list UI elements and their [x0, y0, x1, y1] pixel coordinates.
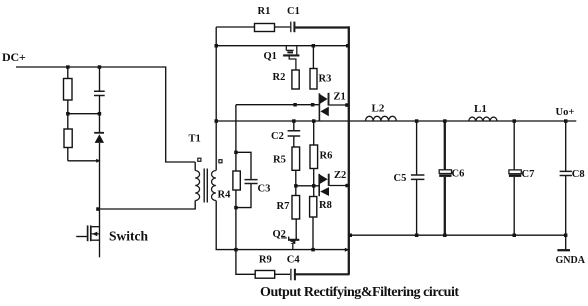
wire R4/C3 vertical	[235, 152, 237, 249]
resistor (input snubber, unlabeled bottom)	[64, 129, 72, 148]
capacitor C5	[411, 175, 425, 179]
junction dot mid rail R8	[311, 248, 315, 252]
junction dot line B C8/Uo+	[564, 119, 568, 123]
svg-text:R1: R1	[258, 6, 271, 17]
wire switch gate lead	[76, 236, 87, 238]
junction dot bottom rail at bus	[349, 234, 353, 238]
capacitor C6 (electrolytic)	[439, 170, 451, 177]
junction dot left tie upper L	[66, 112, 70, 116]
svg-text:R9: R9	[259, 255, 272, 266]
junction dot line B R6	[312, 119, 316, 123]
svg-text:R7: R7	[277, 201, 290, 212]
wire C3 loop	[236, 152, 251, 207]
wire left capacitor/diode column	[99, 67, 101, 209]
junction dot R4 top	[234, 151, 238, 155]
wire thick C4 return	[296, 273, 350, 275]
svg-text:C8: C8	[572, 169, 585, 180]
junction dot bottom rail C7	[513, 234, 517, 238]
svg-text:DC+: DC+	[2, 50, 26, 64]
resistor R9	[255, 271, 275, 279]
junction dot bottom rail GND corner	[564, 234, 568, 238]
junction dot Z2 R6R8	[312, 184, 316, 188]
svg-text:R5: R5	[273, 155, 286, 166]
svg-text:C6: C6	[452, 169, 465, 180]
wire cross ties left section	[68, 114, 100, 161]
svg-text:Z2: Z2	[334, 170, 346, 181]
ground GNDA symbol	[557, 249, 570, 251]
transformer T1	[195, 158, 222, 202]
capacitor (left input, unlabeled)	[94, 91, 105, 95]
capacitor C2	[288, 131, 301, 136]
capacitor C8	[560, 171, 572, 175]
wire output line B (secondary top to Uo+)	[216, 120, 576, 122]
junction dot line B C7	[513, 119, 517, 123]
wire thick C1 to bus	[295, 26, 349, 28]
svg-text:L1: L1	[474, 103, 487, 115]
wire secondary riser (node between T1 secondary top, rails)	[215, 27, 217, 171]
junction dot line B C6	[443, 119, 447, 123]
resistor R5	[292, 147, 300, 170]
inductor L2	[366, 116, 397, 121]
junction dot switch drain / primary	[96, 207, 100, 211]
svg-text:GNDA: GNDA	[556, 255, 586, 266]
wire R9/C4 branch	[236, 250, 290, 275]
wire switch drain column	[99, 209, 101, 257]
transistor Q1	[283, 46, 299, 70]
svg-text:Q1: Q1	[264, 51, 277, 62]
wire C8 column	[565, 121, 567, 250]
junction dot rail2 left	[215, 44, 219, 48]
wire R6-R8 link	[313, 169, 315, 197]
transistor Switch (power MOSFET)	[88, 225, 100, 241]
resistor R4	[233, 171, 240, 190]
zener Z2 (dual clamp)	[319, 174, 329, 197]
svg-text:C1: C1	[287, 6, 300, 17]
svg-text:R8: R8	[319, 200, 332, 211]
svg-text:Output Rectifying&Filtering ci: Output Rectifying&Filtering circuit	[260, 285, 459, 300]
wire left snubber column (resistor branch leads)	[67, 67, 69, 161]
resistor R7	[292, 196, 300, 220]
wire R5-R7 link	[295, 170, 297, 195]
junction dot line B C2	[292, 119, 296, 123]
wire Z1 to rectified bus	[329, 104, 347, 106]
wire R7 to Q2	[295, 219, 297, 240]
resistor R1	[255, 24, 275, 32]
wire C2 leads	[293, 121, 295, 147]
svg-text:Q2: Q2	[273, 229, 286, 240]
wire DC+ input rail	[16, 67, 195, 162]
capacitor C4	[291, 269, 295, 281]
capacitor C3	[245, 180, 258, 184]
svg-text:R6: R6	[320, 151, 333, 162]
svg-text:C7: C7	[522, 169, 535, 180]
wire Z2 left wire	[296, 185, 319, 187]
junction dot Z2 left	[294, 184, 298, 188]
resistor R3	[310, 69, 317, 90]
diode (left clamp)	[94, 133, 104, 143]
junction dot Z1 at bus	[345, 103, 349, 107]
zener Z1 (dual clamp)	[319, 93, 328, 121]
resistor (input snubber, unlabeled top)	[64, 79, 73, 101]
junction dot Z2 at bus	[345, 184, 349, 188]
junction dot left tie upper R	[98, 112, 102, 116]
capacitor C1	[291, 22, 295, 33]
resistor R6	[310, 145, 318, 169]
wire node A drop to R4/C3	[235, 105, 237, 153]
svg-text:T1: T1	[189, 134, 201, 145]
svg-text:C4: C4	[287, 255, 301, 266]
wire C6 thick column	[444, 121, 446, 235]
svg-text:Z1: Z1	[334, 92, 346, 103]
junction dot DC+ rail right	[98, 65, 102, 69]
junction dot line B C5	[415, 119, 419, 123]
svg-text:C3: C3	[258, 184, 271, 195]
junction dot rail2 R3	[312, 44, 316, 48]
wire R3 top lead	[312, 46, 314, 69]
wire bold rectified bus vertical	[348, 26, 350, 274]
svg-text:R4: R4	[218, 190, 232, 201]
wire output bottom rail	[349, 234, 566, 236]
junction dot line B secondary	[215, 119, 219, 123]
svg-text:R3: R3	[319, 74, 332, 85]
capacitor C7 (electrolytic)	[509, 170, 521, 177]
svg-text:C2: C2	[271, 131, 284, 142]
wire R6 top lead	[313, 121, 315, 145]
wire bottom mid rail	[216, 201, 348, 250]
junction arrow left tie lower	[96, 159, 100, 163]
junction dot mid rail at bus	[345, 248, 349, 252]
wire C7 column	[513, 121, 515, 235]
wire C5 column	[416, 121, 418, 235]
wire R8 bottom lead	[312, 217, 314, 250]
svg-text:L2: L2	[372, 103, 385, 115]
svg-text:Switch: Switch	[109, 229, 148, 244]
junction dot bottom rail C5	[415, 234, 419, 238]
svg-text:C5: C5	[394, 173, 407, 184]
wire Z2 right wire	[330, 185, 348, 187]
inductor L1	[469, 117, 497, 121]
junction dot node A R3	[311, 103, 315, 107]
wire primary bottom lead	[98, 201, 195, 210]
wire top snubber loop left	[216, 26, 290, 28]
wire primary top lead	[194, 162, 196, 171]
transistor Q2	[281, 237, 299, 250]
resistor R8	[310, 197, 317, 218]
svg-text:R2: R2	[273, 72, 286, 83]
svg-text:Uo+: Uo+	[556, 107, 575, 118]
junction dot rail2 right	[346, 44, 350, 48]
junction dot mid rail R9 branch	[234, 248, 238, 252]
junction dot DC+ rail left	[66, 65, 70, 69]
wire rail under snubber	[216, 45, 348, 47]
wire node A line (R2/R3 bottoms to Z1)	[236, 104, 319, 106]
junction dot node A R2	[293, 103, 297, 107]
resistor R2	[292, 70, 299, 89]
junction dot bottom rail C6	[443, 234, 447, 238]
junction dot R4 bottom	[234, 206, 238, 210]
